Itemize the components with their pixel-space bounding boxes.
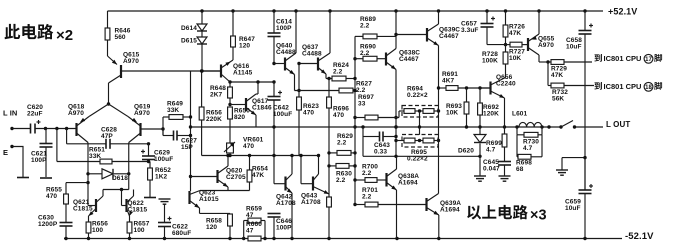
wire bottom -52.1V rail [64,238,622,240]
ground mute [556,170,568,175]
svg-text:A1708: A1708 [276,200,296,207]
svg-text:47K: 47K [509,30,521,37]
svg-text:1200P: 1200P [38,221,58,228]
diode D615 [181,31,207,71]
svg-text:2.2: 2.2 [360,22,370,29]
resistor Q643 emitter [327,194,332,239]
svg-text:2.2: 2.2 [356,87,366,94]
resistor R694 (0.22x2) [402,86,438,127]
resistor R651 [57,129,149,164]
wire tail to Q618/Q619 emitters [89,104,128,117]
wire output line [191,125,563,128]
svg-text:2K7: 2K7 [210,91,223,98]
resistor R656 220K [199,69,222,155]
transistor Q639C [396,24,460,46]
wire Q619 collector [128,143,130,190]
resistor R727 [506,42,529,62]
node L IN terminal [10,127,13,130]
svg-text:560: 560 [115,34,126,41]
transistor Q622 [127,190,148,223]
resistor R652 [148,162,172,198]
svg-text:0.22×2: 0.22×2 [407,92,428,99]
wire C658 trunk [584,34,586,190]
svg-text:C4488: C4488 [276,49,296,56]
resistor R729 [551,60,592,79]
svg-text:33K: 33K [167,107,179,114]
capacitor C614 [268,11,293,65]
wire Q642 base feed [274,156,286,184]
transistor Q638A [387,156,420,190]
resistor R693 [446,88,469,127]
wire VAS top line [228,80,275,83]
resistor R691 [439,71,491,90]
svg-text:C4488: C4488 [302,50,322,57]
transistor Q637 [297,11,330,79]
transistor Q639A [427,194,462,216]
svg-text:D614: D614 [181,25,197,32]
wire top +52.1V rail [108,10,604,12]
svg-text:100uF: 100uF [154,156,173,163]
svg-text:0.33: 0.33 [374,148,387,155]
svg-text:+52.1V: +52.1V [608,7,637,17]
wire Q638C collector to rail [394,11,397,49]
svg-text:A1694: A1694 [440,206,460,213]
svg-text:A1145: A1145 [233,69,253,76]
diode D618 [88,169,130,182]
svg-text:C1815: C1815 [128,206,148,213]
node top rail junctions [200,9,586,12]
wire Q643 base feed [299,154,313,184]
wire Q615 collector to tail [108,83,110,104]
ground C621 [40,177,52,179]
transistor Q615 [108,40,140,83]
transistor Q620 [191,154,246,191]
diode D620 [458,127,486,176]
resistor R657 [127,221,150,239]
svg-text:2.2: 2.2 [360,50,370,57]
note 以上电路×3 [467,205,546,224]
svg-text:2.2: 2.2 [362,170,372,177]
capacitor C629 [141,144,173,163]
resistor R650 [228,107,251,141]
svg-text:17: 17 [645,57,652,63]
pot VR601 [224,137,264,156]
capacitor C646 [268,214,293,239]
node diff pair tail [107,102,110,105]
wire D620 line [363,137,482,159]
ground E [17,177,29,179]
resistor R630 [327,164,356,184]
svg-text:470: 470 [303,109,314,116]
resistor R726 [503,11,525,46]
svg-text:470: 470 [333,112,344,119]
wire mute ground tap [562,156,587,170]
resistor R647 [231,11,256,60]
svg-text:A1015: A1015 [199,196,219,203]
net label -52.1V [625,231,654,242]
resistor R692 [478,88,500,127]
svg-text:100uF: 100uF [273,111,292,118]
svg-text:A1694: A1694 [398,179,418,186]
svg-text:56K: 56K [552,95,564,102]
resistor R623 [297,91,320,156]
svg-text:D618: D618 [112,175,128,182]
resistor R660 [246,221,262,241]
svg-text:120: 120 [239,42,250,49]
wire E to ground [12,147,23,178]
resistor R649 [163,101,191,120]
wire L IN to C620 [12,128,30,130]
resistor R646 [105,11,131,41]
wire C620 to Q618 base [35,127,77,130]
capacitor C628 [67,127,151,149]
note 此电路×2 [5,24,74,44]
ground C645 [499,176,511,181]
capacitor C630 [38,204,73,239]
wire Q623 emitter line [200,212,231,214]
transistor Q616 [202,60,253,82]
ground R652 [144,197,156,199]
svg-text:L OUT: L OUT [606,120,630,129]
wire Q618 collector [86,143,89,206]
svg-text:IC801 CPU: IC801 CPU [604,82,642,91]
wire Q642 emitter [290,193,293,240]
svg-text:-52.1V: -52.1V [625,231,654,242]
transistor Q642 [276,154,296,207]
capacitor C622 [158,199,191,239]
svg-text:C1846: C1846 [252,104,272,111]
label CPU18 [594,82,662,91]
wire driver bias trunk [353,36,356,206]
svg-text:A970: A970 [68,110,84,117]
svg-text:10uF: 10uF [565,205,581,212]
resistor R701 [355,187,427,207]
svg-text:2.2: 2.2 [336,177,346,184]
wire Q639A emitter [438,215,440,239]
capacitor C658 [566,11,593,50]
resistor R698 [516,135,542,173]
net label +52.1V [608,7,637,17]
svg-text:10K: 10K [446,109,458,116]
capacitor C627 [163,117,197,151]
wire mid node line [202,154,319,157]
svg-text:120: 120 [206,224,217,231]
ground D620 [474,176,486,181]
capacitor C620 [27,104,43,133]
svg-text:33: 33 [358,100,366,107]
capacitor C642 [268,82,293,127]
wire feedback trunk [189,71,192,191]
wire CPU17 line [539,60,551,63]
svg-text:120K: 120K [483,110,499,117]
transistor Q623 [190,190,219,214]
svg-text:3.3uF: 3.3uF [461,27,478,34]
resistor R730 [517,127,542,152]
svg-text:470: 470 [46,193,57,200]
transistor Q655 [528,11,555,62]
svg-text:47P: 47P [101,133,113,140]
inductor L601 [512,111,542,127]
transistor Q638C [386,49,420,70]
switch relay contact [561,121,573,128]
svg-text:33K: 33K [89,153,101,160]
wire switch to L OUT [573,125,603,128]
resistor R728 [482,45,508,78]
svg-text:100K: 100K [482,57,498,64]
resistor R696 [327,79,350,195]
svg-text:4K7: 4K7 [442,77,455,84]
svg-text:2.2: 2.2 [337,139,347,146]
node E terminal [10,145,13,148]
svg-text:220K: 220K [206,116,222,123]
resistor R690 [355,44,386,62]
diode D614 [181,11,207,32]
resistor R697 [355,94,402,120]
label CPU17 [594,54,662,63]
svg-text:100: 100 [134,227,145,234]
wire Q656 emitter [504,98,506,127]
svg-text:L IN: L IN [3,108,17,117]
svg-text:470: 470 [243,143,254,150]
svg-text:×3: ×3 [530,208,547,224]
transistor Q643 [301,154,329,206]
resistor R699 [486,127,507,162]
net label L IN [3,108,17,117]
svg-text:15P: 15P [181,144,193,151]
resistor R654 [228,156,268,191]
svg-text:×2: ×2 [56,27,73,44]
resistor R695 (0.22x2) [396,127,439,163]
svg-text:100P: 100P [276,224,292,231]
svg-text:L601: L601 [512,111,528,118]
resistor R627 [295,81,373,94]
wire CPU18 line [548,62,551,86]
svg-text:100P: 100P [276,25,292,32]
svg-text:22uF: 22uF [27,110,43,117]
resistor R659 [244,206,265,239]
svg-text:A1708: A1708 [301,199,321,206]
svg-text:C2240: C2240 [496,80,516,87]
wire Q615 base bias line [121,69,221,72]
capacitor C645 [483,159,511,176]
wire mirror base tie [103,188,129,206]
resistor R629 [327,133,355,155]
svg-text:18: 18 [645,85,652,91]
transistor Q618 [68,104,89,143]
transistor Q621 [73,196,103,222]
svg-text:0.047: 0.047 [483,165,500,172]
wire Q638A emitter [396,190,398,239]
svg-text:10K: 10K [509,55,521,62]
svg-text:IC801 CPU: IC801 CPU [604,54,642,63]
wire output trunk C642 leg [272,127,275,157]
svg-text:4.7: 4.7 [523,145,533,152]
transistor Q619 [128,104,165,143]
capacitor C643 [363,127,396,155]
svg-text:68: 68 [516,166,524,173]
resistor R732 [551,83,594,102]
svg-text:4.7: 4.7 [486,146,496,153]
svg-text:E: E [3,148,8,157]
wire Q639C collector to rail [438,11,440,24]
svg-text:C2705: C2705 [226,174,246,181]
svg-text:D620: D620 [458,148,474,155]
transistor Q617 [230,82,272,127]
transistor Q656 [480,74,516,98]
svg-text:680uF: 680uF [172,230,191,237]
svg-text:C1815: C1815 [73,205,93,212]
transistor Q640 [274,11,296,91]
svg-text:2.2: 2.2 [333,68,343,75]
capacitor C657 [461,11,506,45]
svg-text:47K: 47K [252,172,264,179]
svg-text:10uF: 10uF [566,43,582,50]
resistor R700 [355,164,387,183]
svg-text:820: 820 [234,114,245,121]
svg-text:1K2: 1K2 [155,173,168,180]
capacitor C659 [565,158,593,239]
svg-text:A970: A970 [134,110,150,117]
capacitor C621 [31,129,53,178]
node bottom rail junctions [64,237,586,240]
resistor R655 [46,183,88,204]
svg-text:100: 100 [92,227,103,234]
net label L OUT [606,120,630,129]
resistor R648 [210,82,232,106]
svg-text:D615: D615 [181,38,197,45]
wire Q639C emitter trunk [437,46,440,194]
svg-text:47K: 47K [551,72,563,79]
resistor R656b [86,221,108,239]
svg-text:C4467: C4467 [399,56,419,63]
svg-text:A970: A970 [538,42,554,49]
svg-text:2.2: 2.2 [362,193,372,200]
wire Q637 base feed [297,64,300,93]
svg-text:47: 47 [246,227,254,234]
svg-text:A970: A970 [123,58,139,65]
svg-text:C4467: C4467 [439,33,459,40]
svg-text:100P: 100P [31,157,47,164]
wire Q638C emitter trunk [394,70,397,157]
net label E [3,148,8,157]
resistor R658 [206,213,232,238]
resistor R624 [326,62,355,81]
svg-text:47: 47 [246,212,254,219]
resistor R689 [355,16,396,39]
